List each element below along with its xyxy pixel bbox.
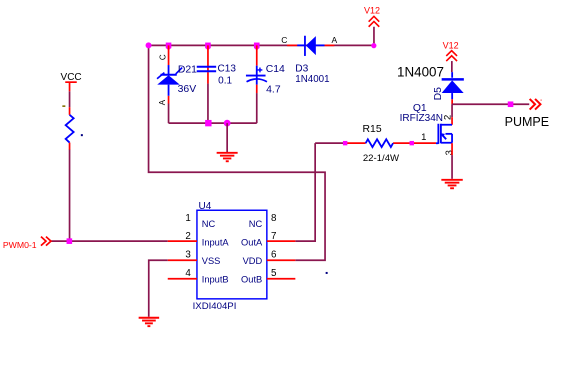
IC U4 body <box>197 210 267 299</box>
wire A from R15 down to pin7 OutA <box>295 143 315 241</box>
svg-text:D5: D5 <box>433 87 444 101</box>
power V12 right <box>446 51 457 61</box>
wire bottom rail of snubber <box>169 122 257 124</box>
svg-text:3: 3 <box>185 250 191 261</box>
svg-text:NC: NC <box>249 219 263 229</box>
ground under Q1 source <box>441 180 462 188</box>
svg-text:PUMPE: PUMPE <box>505 115 549 129</box>
wire ground stem <box>226 123 228 152</box>
svg-text:D21: D21 <box>178 65 197 76</box>
svg-text:V12: V12 <box>364 5 380 15</box>
transistor Q1 MOSFET body <box>436 124 452 144</box>
svg-text:R15: R15 <box>363 124 382 135</box>
svg-text:C: C <box>281 35 287 45</box>
ground under snubber rail <box>217 153 238 161</box>
pin source red <box>451 143 453 155</box>
svg-text:1: 1 <box>185 213 190 224</box>
svg-text:36V: 36V <box>178 84 197 95</box>
svg-text:PWM0-1: PWM0-1 <box>3 240 37 250</box>
svg-text:U4: U4 <box>199 201 212 212</box>
power V12 top <box>369 16 380 26</box>
wire drain vertical <box>451 104 453 117</box>
pin 2 stub <box>168 240 197 242</box>
transistor Q1 bulk arrow head <box>441 133 445 137</box>
svg-text:1N4007: 1N4007 <box>397 65 444 80</box>
svg-text:A: A <box>158 99 167 105</box>
junction square R15 left pin end <box>343 141 347 145</box>
junction dot top rail corner <box>146 42 152 48</box>
wire PUMPE <box>452 103 529 105</box>
pin 6 stub <box>267 259 296 261</box>
junction square C13 bottom <box>205 120 211 126</box>
svg-text:VSS: VSS <box>202 256 221 266</box>
svg-text:InputA: InputA <box>202 238 230 248</box>
svg-text:OutB: OutB <box>241 275 262 285</box>
svg-text:V12: V12 <box>443 41 459 51</box>
svg-text:D3: D3 <box>295 64 308 75</box>
svg-text:VCC: VCC <box>61 72 82 83</box>
stray speck near R (dot) <box>81 134 83 136</box>
svg-text:22-1/4W: 22-1/4W <box>363 153 400 164</box>
stray speck below pin6 wire <box>326 272 328 274</box>
svg-text:C: C <box>159 54 168 60</box>
svg-text:8: 8 <box>271 213 277 224</box>
svg-text:1: 1 <box>421 132 426 143</box>
stray speck near R (dash) <box>62 105 65 107</box>
wire PWM0-1 to pin2 InputA <box>51 240 168 242</box>
svg-text:1N4001: 1N4001 <box>295 74 329 85</box>
svg-text:C14: C14 <box>266 64 285 75</box>
zener diode D21 body <box>157 68 182 85</box>
diode D3 pins <box>287 44 297 46</box>
pin drain red <box>451 117 453 125</box>
svg-text:6: 6 <box>271 250 277 261</box>
junction square on PUMPE wire <box>508 101 514 107</box>
capacitor C13 branch leads <box>207 45 209 72</box>
junction square R15 right pin end <box>410 141 414 145</box>
svg-text:A: A <box>332 35 338 45</box>
svg-text:C13: C13 <box>218 64 237 75</box>
junction PWM/VCC node <box>67 238 73 244</box>
svg-text:IRFIZ34N: IRFIZ34N <box>400 113 443 124</box>
resistor R15 pins <box>344 142 366 144</box>
zener diode D21 branch leads <box>168 45 170 65</box>
capacitor C14 branch leads <box>256 45 258 65</box>
wire VCC resistor chain vertical <box>69 91 71 107</box>
svg-text:4.7: 4.7 <box>266 85 281 96</box>
svg-text:3: 3 <box>444 150 455 155</box>
pin 7 stub <box>267 240 296 242</box>
junction dot C13 top <box>205 43 211 49</box>
capacitor C14 plates (polarized) <box>246 68 267 82</box>
port PWM0-1 <box>41 237 51 246</box>
svg-text:OutA: OutA <box>241 238 263 248</box>
wire top rail V12 <box>149 44 374 46</box>
junction dot D21 top <box>166 43 172 49</box>
svg-text:0.1: 0.1 <box>218 75 232 86</box>
resistor R (VCC pullup) <box>66 107 74 150</box>
power VCC symbol <box>65 82 77 91</box>
svg-text:5: 5 <box>271 268 277 279</box>
diode D3 body <box>305 36 316 56</box>
svg-text:InputB: InputB <box>202 275 229 285</box>
capacitor C13 plates <box>197 67 216 72</box>
svg-text:4: 4 <box>185 268 191 279</box>
svg-text:2: 2 <box>443 115 454 120</box>
wire R15 line maroon <box>315 142 344 144</box>
pin 5 stub <box>267 278 296 280</box>
wire source to ground <box>451 155 453 179</box>
svg-text:7: 7 <box>271 231 276 242</box>
svg-text:IXDI404PI: IXDI404PI <box>193 301 237 312</box>
svg-text:NC: NC <box>202 219 216 229</box>
svg-text:VDD: VDD <box>243 256 263 266</box>
port PUMPE <box>530 99 541 110</box>
junction dot V12 drop <box>371 43 376 48</box>
junction dot C14 top <box>254 43 260 49</box>
diode D5 leads <box>451 72 453 78</box>
resistor R15 body <box>366 139 393 147</box>
wire left vertical from top rail <box>149 45 326 260</box>
pin 3 stub <box>168 259 197 261</box>
wire VSS to ground <box>149 260 168 317</box>
svg-text:2: 2 <box>185 231 190 242</box>
pin 4 stub <box>168 278 197 280</box>
diode D5 body <box>442 79 464 93</box>
ground under VSS <box>139 318 160 326</box>
junction dot ground tee <box>224 120 231 127</box>
